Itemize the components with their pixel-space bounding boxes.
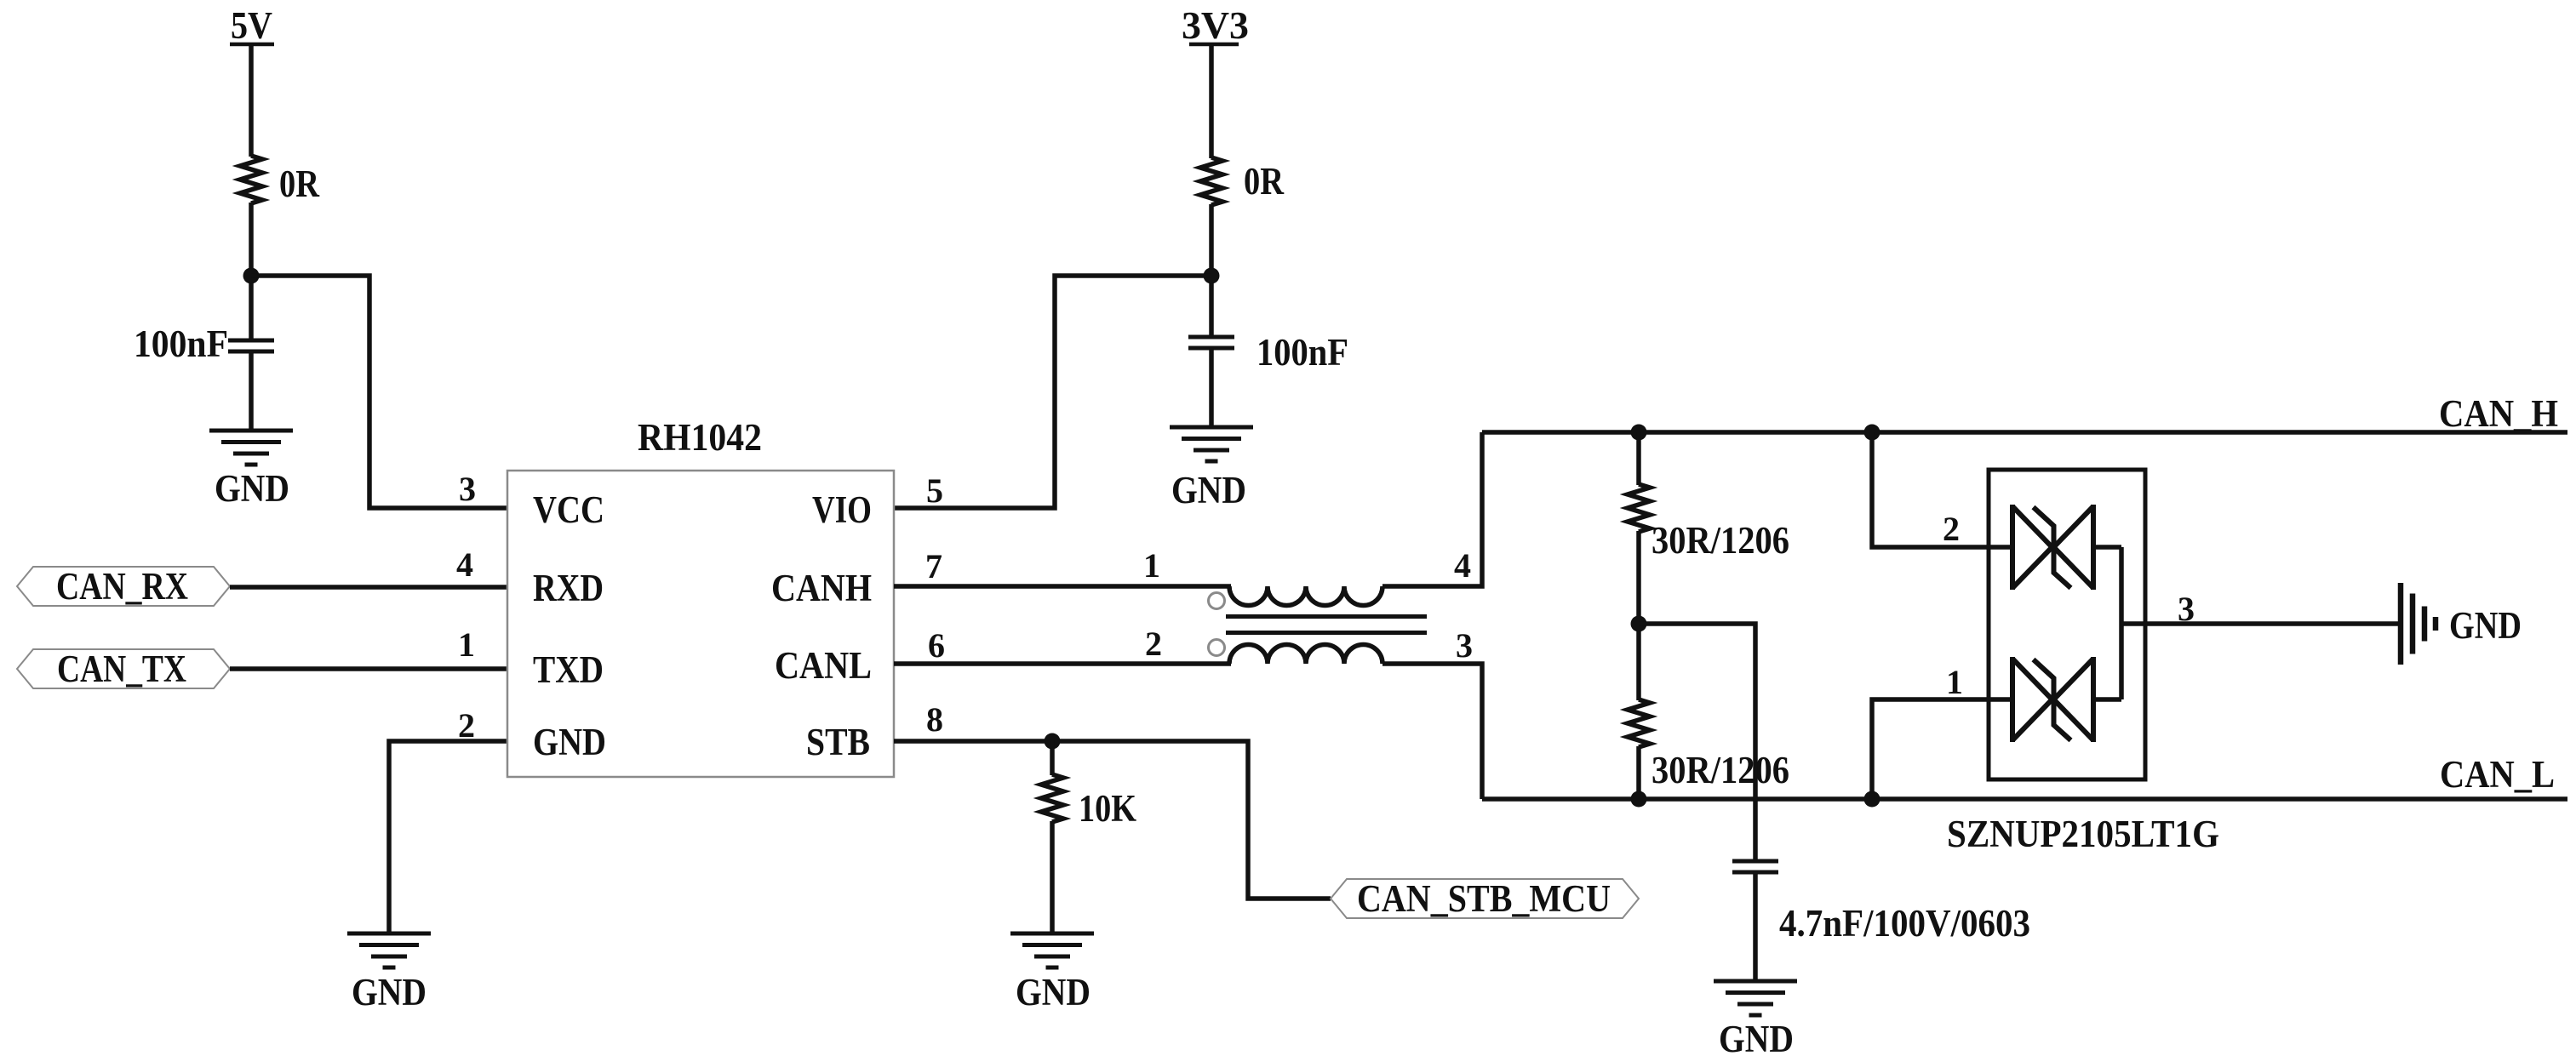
resistor 30R/1206 bottom bbox=[1628, 699, 1789, 791]
svg-text:3: 3 bbox=[1456, 626, 1473, 665]
wire 3V3 to resistor bbox=[1209, 44, 1214, 158]
choke phase dot top bbox=[1209, 593, 1225, 609]
wire resistor to node bbox=[1209, 204, 1214, 338]
wire resistor to node bbox=[249, 203, 254, 341]
ground GND (IC pin 2) bbox=[347, 933, 431, 1013]
wire 5V to resistor bbox=[249, 44, 254, 157]
svg-text:STB: STB bbox=[806, 721, 870, 763]
svg-text:2: 2 bbox=[458, 706, 475, 745]
port CAN_STB_MCU bbox=[1331, 877, 1639, 920]
wire CANL pin 6 to choke bbox=[894, 661, 1231, 666]
svg-text:5V: 5V bbox=[231, 4, 272, 47]
svg-text:10K: 10K bbox=[1079, 787, 1136, 830]
svg-text:30R/1206: 30R/1206 bbox=[1652, 519, 1789, 562]
svg-text:CAN_L: CAN_L bbox=[2440, 753, 2555, 796]
wire choke pin 3 down to CAN_L bbox=[1382, 664, 1482, 799]
common mode choke L1 winding top bbox=[1229, 586, 1382, 606]
capacitor 4.7nF/100V/0603 bbox=[1732, 861, 2030, 945]
svg-text:100nF: 100nF bbox=[1257, 331, 1348, 374]
svg-text:CANL: CANL bbox=[775, 644, 872, 687]
ground GND (3V3 branch) bbox=[1170, 427, 1253, 511]
wire resistor 10K to ground bbox=[1050, 821, 1055, 934]
node junction CAN_H / 30R bbox=[1631, 425, 1647, 441]
wire 30R top to mid node bbox=[1636, 531, 1641, 700]
resistor 0R (5V branch) bbox=[240, 156, 319, 205]
svg-text:GND: GND bbox=[533, 721, 606, 763]
node junction 5V/VCC bbox=[243, 268, 260, 284]
resistor 30R/1206 top bbox=[1628, 484, 1789, 562]
svg-text:1: 1 bbox=[458, 625, 475, 664]
svg-text:4: 4 bbox=[456, 545, 473, 584]
TVS D1 box SZNUP2105LT1G bbox=[1947, 470, 2219, 855]
svg-text:CAN_STB_MCU: CAN_STB_MCU bbox=[1357, 877, 1611, 920]
wire 30R bottom to CAN_L bbox=[1636, 746, 1641, 799]
ground GND (10K) bbox=[1010, 933, 1094, 1013]
wire choke pin 4 up to CAN_H bbox=[1382, 432, 1482, 586]
wire STB pin 8 to flag corner bbox=[894, 741, 1331, 899]
svg-text:1: 1 bbox=[1946, 663, 1963, 701]
svg-text:GND: GND bbox=[215, 467, 289, 510]
svg-text:SZNUP2105LT1G: SZNUP2105LT1G bbox=[1947, 813, 2219, 855]
wire CAN_RX to RXD pin 4 bbox=[230, 585, 507, 590]
ground GND (4.7nF) bbox=[1714, 981, 1797, 1056]
svg-text:GND: GND bbox=[1719, 1018, 1794, 1056]
node junction CAN_H / TVS pin 2 bbox=[1864, 425, 1880, 441]
svg-text:CAN_H: CAN_H bbox=[2439, 392, 2558, 435]
svg-text:CANH: CANH bbox=[771, 567, 872, 609]
wire CAN_TX to TXD pin 1 bbox=[230, 666, 507, 671]
svg-text:GND: GND bbox=[1016, 971, 1091, 1013]
wire CANH pin 7 to choke bbox=[894, 584, 1231, 589]
svg-text:VCC: VCC bbox=[533, 488, 604, 531]
wire CAN_H to 30R top bbox=[1636, 432, 1641, 485]
capacitor 100nF (3V3 branch) bbox=[1188, 331, 1348, 374]
wire mid node to capacitor 4.7nF bbox=[1639, 624, 1755, 862]
choke core lines bbox=[1226, 617, 1427, 633]
svg-text:7: 7 bbox=[925, 547, 942, 585]
wire capacitor to ground bbox=[249, 351, 254, 431]
svg-text:3: 3 bbox=[459, 470, 476, 508]
ground GND (5V branch) bbox=[209, 431, 293, 510]
wire TVS internal leads bbox=[1989, 547, 2121, 699]
svg-text:TXD: TXD bbox=[533, 648, 604, 691]
svg-text:3: 3 bbox=[2178, 590, 2195, 628]
power symbol 5V bbox=[230, 4, 274, 47]
net CAN_L wire bbox=[1482, 796, 2567, 802]
wire capacitor to ground bbox=[1753, 872, 1758, 982]
svg-text:RXD: RXD bbox=[533, 567, 604, 609]
svg-text:4: 4 bbox=[1454, 546, 1471, 585]
svg-text:0R: 0R bbox=[279, 163, 319, 205]
svg-text:VIO: VIO bbox=[812, 488, 872, 531]
svg-text:CAN_RX: CAN_RX bbox=[56, 565, 188, 608]
wire GND pin 2 to ground bbox=[389, 741, 507, 934]
net CAN_H wire bbox=[1482, 430, 2567, 435]
wire capacitor to ground bbox=[1209, 348, 1214, 428]
resistor 10K bbox=[1041, 774, 1136, 830]
power symbol 3V3 bbox=[1182, 4, 1249, 47]
svg-text:1: 1 bbox=[1143, 546, 1160, 585]
resistor 0R (3V3 branch) bbox=[1200, 157, 1284, 205]
op-amp U1 RH1042 transceiver box bbox=[507, 416, 894, 777]
common mode choke L1 winding bottom bbox=[1229, 645, 1382, 665]
wire junction to resistor 10K bbox=[1050, 741, 1055, 775]
svg-text:6: 6 bbox=[928, 626, 945, 665]
svg-text:2: 2 bbox=[1943, 510, 1960, 548]
svg-text:GND: GND bbox=[1171, 469, 1246, 511]
svg-text:3V3: 3V3 bbox=[1182, 4, 1249, 47]
ground GND (right, rotated) bbox=[2401, 583, 2522, 665]
choke phase dot bottom bbox=[1209, 640, 1225, 656]
node junction STB/10K bbox=[1045, 733, 1061, 750]
svg-text:100nF: 100nF bbox=[134, 323, 228, 365]
wire node to VIO pin 5 bbox=[894, 276, 1211, 508]
svg-text:GND: GND bbox=[352, 971, 426, 1013]
capacitor 100nF (5V branch) bbox=[134, 323, 274, 365]
svg-text:0R: 0R bbox=[1244, 160, 1284, 203]
TVS diode top bbox=[2012, 505, 2093, 590]
node junction CAN_L / TVS pin 1 bbox=[1864, 791, 1880, 808]
svg-text:5: 5 bbox=[926, 471, 943, 510]
wire node to VCC pin 3 bbox=[251, 276, 507, 508]
TVS diode bottom bbox=[2012, 657, 2093, 742]
wire CAN_L to TVS pin 1 bbox=[1872, 699, 1989, 799]
svg-text:RH1042: RH1042 bbox=[638, 416, 762, 459]
wire CAN_H to TVS pin 2 bbox=[1872, 432, 1989, 547]
svg-text:GND: GND bbox=[2449, 604, 2522, 647]
svg-text:CAN_TX: CAN_TX bbox=[57, 648, 186, 690]
svg-text:4.7nF/100V/0603: 4.7nF/100V/0603 bbox=[1779, 902, 2030, 945]
svg-text:8: 8 bbox=[926, 700, 943, 739]
wire TVS pin 3 to ground bbox=[2121, 621, 2401, 626]
svg-text:30R/1206: 30R/1206 bbox=[1652, 749, 1789, 791]
node junction mid 30R bbox=[1631, 616, 1647, 632]
port CAN_TX bbox=[17, 648, 230, 690]
port CAN_RX bbox=[17, 565, 230, 608]
node junction 3V3/VIO bbox=[1204, 268, 1220, 284]
svg-text:2: 2 bbox=[1145, 625, 1162, 663]
node junction CAN_L / 30R bbox=[1631, 791, 1647, 808]
